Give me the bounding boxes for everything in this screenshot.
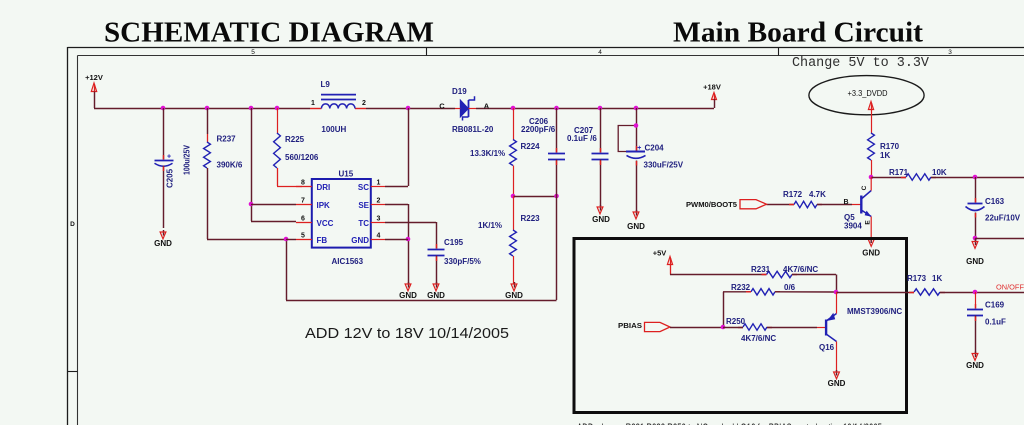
svg-text:GND: GND [351, 236, 369, 245]
svg-text:C204: C204 [645, 144, 665, 153]
svg-text:RB081L-20: RB081L-20 [452, 125, 494, 134]
svg-text:AIC1563: AIC1563 [332, 257, 364, 266]
svg-text:330pF/5%: 330pF/5% [444, 257, 481, 266]
svg-text:TC: TC [358, 219, 369, 228]
svg-text:0.1uF /6: 0.1uF /6 [567, 134, 597, 143]
svg-text:GND: GND [828, 379, 846, 388]
svg-text:1: 1 [377, 180, 381, 187]
svg-text:C: C [861, 185, 868, 190]
svg-text:GND: GND [862, 249, 880, 258]
svg-text:GND: GND [154, 239, 172, 248]
svg-text:+: + [167, 154, 171, 161]
svg-text:VCC: VCC [317, 219, 334, 228]
svg-text:GND: GND [627, 222, 645, 231]
svg-text:GND: GND [399, 291, 417, 300]
svg-text:330uF/25V: 330uF/25V [644, 161, 684, 170]
svg-text:R223: R223 [521, 214, 541, 223]
svg-text:3: 3 [377, 216, 381, 223]
svg-text:R173: R173 [907, 274, 927, 283]
svg-text:L9: L9 [321, 80, 331, 89]
svg-text:4: 4 [598, 49, 602, 56]
svg-text:3904: 3904 [844, 222, 862, 231]
svg-text:C169: C169 [985, 301, 1005, 310]
svg-text:GND: GND [592, 215, 610, 224]
svg-text:1K: 1K [880, 151, 890, 160]
svg-text:C195: C195 [444, 238, 464, 247]
svg-text:GND: GND [427, 291, 445, 300]
svg-text:C205: C205 [165, 168, 174, 188]
svg-text:10K: 10K [932, 168, 947, 177]
svg-text:Main Board Circuit: Main Board Circuit [673, 17, 923, 49]
svg-text:ADD 12V to 18V 10/14/2005: ADD 12V to 18V 10/14/2005 [305, 326, 509, 342]
svg-text:R224: R224 [521, 142, 541, 151]
svg-text:GND: GND [505, 291, 523, 300]
svg-text:+5V: +5V [653, 249, 667, 258]
svg-text:GND: GND [966, 361, 984, 370]
svg-text:R170: R170 [880, 142, 900, 151]
svg-text:Change 5V to 3.3V: Change 5V to 3.3V [792, 56, 930, 71]
svg-text:0/6: 0/6 [784, 283, 796, 292]
svg-text:4.7K: 4.7K [809, 190, 826, 199]
svg-text:R225: R225 [285, 135, 305, 144]
svg-text:R237: R237 [217, 135, 237, 144]
svg-text:E: E [865, 220, 872, 225]
svg-text:+3.3_DVDD: +3.3_DVDD [848, 89, 888, 98]
svg-text:PWM0/BOOT5: PWM0/BOOT5 [686, 200, 737, 209]
svg-text:U15: U15 [339, 170, 354, 179]
svg-text:22uF/10V: 22uF/10V [985, 214, 1021, 223]
svg-text:ADD: change R231,R232,R250 to: ADD: change R231,R232,R250 to NC and add… [577, 421, 882, 425]
svg-text:R250: R250 [726, 317, 746, 326]
svg-text:5: 5 [301, 233, 305, 240]
svg-text:C: C [439, 102, 445, 111]
svg-text:FB: FB [317, 236, 328, 245]
svg-text:DRI: DRI [317, 183, 331, 192]
svg-text:7: 7 [301, 198, 305, 205]
svg-text:5: 5 [251, 49, 255, 56]
svg-text:SE: SE [358, 201, 369, 210]
svg-text:2: 2 [377, 198, 381, 205]
svg-text:R231: R231 [751, 265, 771, 274]
svg-text:+: + [637, 145, 641, 152]
svg-text:D19: D19 [452, 87, 467, 96]
svg-text:C163: C163 [985, 197, 1005, 206]
svg-text:0.1uF: 0.1uF [985, 318, 1006, 327]
svg-text:8: 8 [301, 180, 305, 187]
svg-text:3: 3 [948, 49, 952, 56]
svg-text:2: 2 [362, 100, 366, 107]
svg-text:+12V: +12V [85, 73, 103, 82]
svg-text:MMST3906/NC: MMST3906/NC [847, 307, 902, 316]
svg-text:SCHEMATIC DIAGRAM: SCHEMATIC DIAGRAM [104, 17, 434, 49]
svg-text:ON/OFF: ON/OFF [996, 283, 1024, 292]
svg-text:SC: SC [358, 183, 369, 192]
svg-text:R232: R232 [731, 283, 751, 292]
svg-text:2200pF/6: 2200pF/6 [521, 125, 556, 134]
svg-text:1K: 1K [932, 274, 942, 283]
svg-text:A: A [484, 102, 490, 111]
svg-text:560/1206: 560/1206 [285, 153, 319, 162]
svg-text:100UH: 100UH [321, 125, 346, 134]
svg-text:R171: R171 [889, 168, 909, 177]
svg-text:4: 4 [377, 233, 381, 240]
svg-text:PBIAS: PBIAS [618, 321, 642, 330]
svg-text:1: 1 [311, 100, 315, 107]
svg-text:GND: GND [966, 257, 984, 266]
svg-text:B: B [843, 199, 848, 206]
svg-text:R172: R172 [783, 190, 803, 199]
svg-text:4K7/6/NC: 4K7/6/NC [783, 265, 818, 274]
svg-text:390K/6: 390K/6 [217, 161, 243, 170]
svg-text:Q16: Q16 [819, 343, 835, 352]
svg-text:6: 6 [301, 216, 305, 223]
svg-text:IPK: IPK [317, 201, 331, 210]
svg-text:13.3K/1%: 13.3K/1% [470, 149, 505, 158]
svg-text:100u/25V: 100u/25V [182, 144, 191, 175]
svg-text:1K/1%: 1K/1% [478, 221, 502, 230]
svg-text:4K7/6/NC: 4K7/6/NC [741, 334, 776, 343]
svg-text:D: D [70, 221, 75, 228]
svg-text:+18V: +18V [703, 83, 721, 92]
